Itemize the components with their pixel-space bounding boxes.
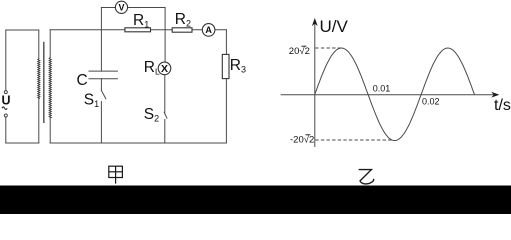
wire: lamp branch upper (voltmeter right lead down to lamp) [164, 8, 166, 63]
transformer core [43, 42, 45, 123]
svg-text:U/V: U/V [320, 17, 349, 36]
voltmeter V circle [115, 1, 127, 13]
wire: source loop left edge upper [5, 30, 7, 91]
svg-text:V: V [118, 3, 124, 13]
vinculum over 2 of 20sqrt2 [302, 45, 307, 47]
wire: secondary winding lead upper [49, 30, 51, 58]
svg-text:t/s: t/s [494, 97, 511, 114]
wire: capacitor branch upper (voltmeter left lead down to C) [100, 8, 102, 72]
svg-text:0.02: 0.02 [422, 96, 440, 106]
wire: lamp to switch S2 [164, 75, 166, 113]
capacitor C plates [89, 71, 117, 79]
bottom black bar [0, 186, 511, 215]
wire: primary winding lead lower [38, 98, 40, 143]
wire: source loop bottom edge [6, 142, 39, 144]
wire: top main wire [50, 29, 226, 31]
switch S1 blade [101, 91, 105, 99]
svg-text:C: C [77, 72, 88, 89]
resistor R1 body [125, 28, 151, 32]
terminal: upper terminal of source U [4, 91, 7, 94]
dashed level -20sqrt2 [315, 139, 392, 141]
wire: capacitor to switch S1 [100, 79, 102, 91]
caption JIA (armature character) [109, 166, 123, 183]
wire: secondary winding lead lower [49, 118, 51, 143]
terminal: lower terminal of source U [4, 114, 7, 117]
lamp RL circle [158, 62, 171, 75]
dashed level +20sqrt2 [315, 47, 341, 49]
switch S2 blade [164, 112, 167, 118]
svg-text:X: X [161, 63, 168, 75]
resistor R3 body [222, 54, 229, 78]
inductor: transformer secondary coil [49, 58, 51, 118]
wire: source loop top edge [6, 29, 39, 31]
caption YI character [359, 170, 374, 184]
ammeter A circle [202, 24, 215, 37]
wire: right branch with R3 [225, 30, 227, 143]
sine curve U(t) [315, 48, 475, 141]
vinculum over 2 of -20sqrt2 [306, 134, 311, 136]
wire: bottom main wire [50, 142, 226, 144]
svg-text:20√2: 20√2 [289, 46, 310, 57]
x-axis arrowhead [491, 92, 499, 98]
graph x-axis [281, 94, 497, 96]
wire: source loop left edge lower [5, 117, 7, 143]
svg-text:U: U [2, 94, 11, 108]
AC tilde under U [2, 107, 7, 110]
wire: S1 to bottom [100, 102, 102, 143]
resistor R2 body [172, 28, 192, 32]
svg-text:0.01: 0.01 [373, 84, 391, 94]
wire: S2 to bottom [164, 120, 166, 144]
svg-text:A: A [205, 25, 212, 35]
inductor: transformer primary coil [38, 59, 40, 99]
wire: primary winding lead upper [38, 30, 40, 59]
svg-text:-20√2: -20√2 [290, 135, 314, 146]
wire: voltmeter top loop [101, 7, 165, 9]
y-axis arrowhead [312, 18, 318, 26]
graph y-axis [314, 20, 316, 147]
